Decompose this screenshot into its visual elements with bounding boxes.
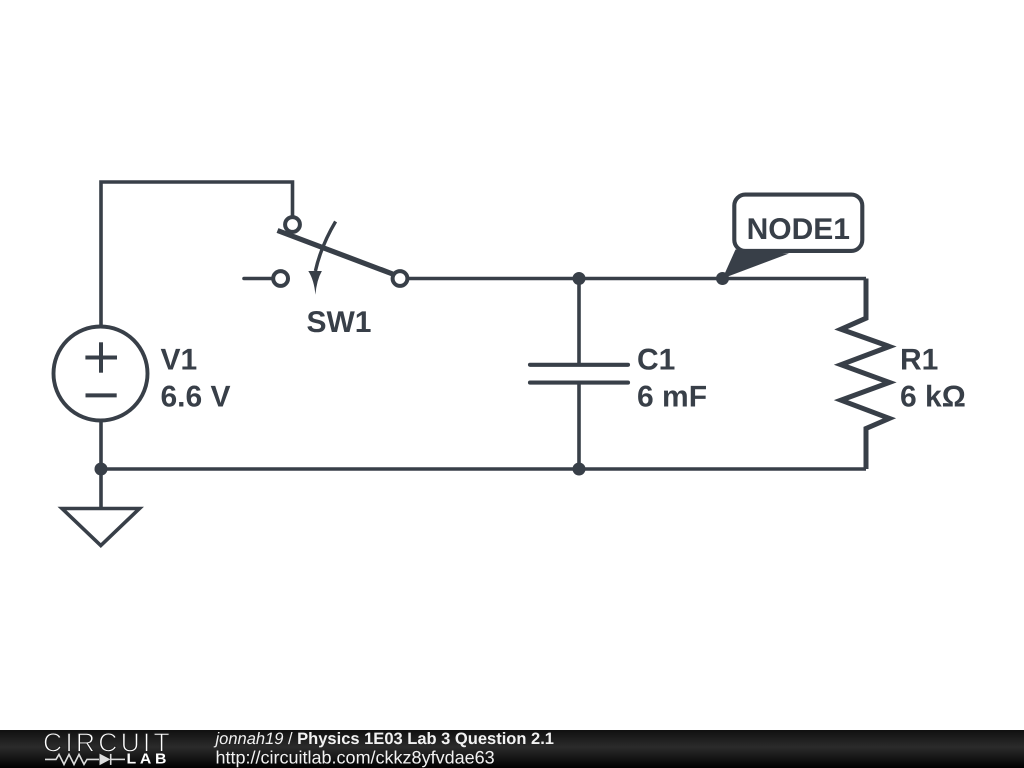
svg-text:V1: V1 — [161, 344, 198, 377]
svg-text:SW1: SW1 — [306, 306, 371, 339]
svg-text:6 kΩ: 6 kΩ — [900, 381, 966, 414]
svg-text:6.6 V: 6.6 V — [161, 381, 231, 414]
svg-text:LAB: LAB — [126, 752, 170, 768]
svg-text:http://circuitlab.com/ckkz8yfv: http://circuitlab.com/ckkz8yfvdae63 — [216, 748, 495, 768]
svg-text:jonnah19 / Physics 1E03 Lab 3: jonnah19 / Physics 1E03 Lab 3 Question 2… — [214, 730, 554, 748]
svg-text:C1: C1 — [637, 344, 675, 377]
svg-text:NODE1: NODE1 — [747, 213, 850, 246]
svg-text:R1: R1 — [900, 344, 938, 377]
svg-text:6 mF: 6 mF — [637, 381, 707, 414]
